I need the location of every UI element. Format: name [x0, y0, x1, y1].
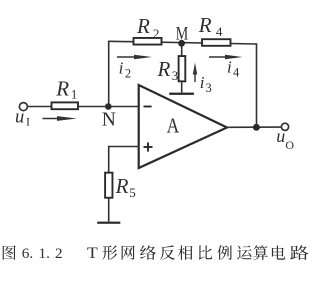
wire input to R1	[28, 106, 52, 108]
wire R3 to ground	[181, 82, 183, 92]
top rail wire	[109, 41, 257, 44]
plus input wire	[109, 146, 140, 148]
node N	[105, 103, 112, 110]
svg-text:A: A	[167, 113, 180, 137]
svg-text:3: 3	[206, 81, 212, 95]
svg-text:M: M	[176, 25, 189, 45]
input current arrow	[43, 116, 78, 121]
svg-text:R: R	[157, 57, 171, 81]
output terminal circle	[281, 123, 288, 130]
svg-text:4: 4	[216, 24, 223, 39]
resistor R5	[105, 173, 112, 198]
svg-text:O: O	[285, 138, 294, 152]
label R2	[136, 14, 159, 41]
caption chinese text paths	[3, 245, 309, 260]
svg-text:I: I	[26, 114, 30, 128]
op-amp plus sign	[144, 142, 153, 151]
label R5	[115, 174, 136, 200]
current arrow i3	[193, 63, 197, 83]
ground under R3	[169, 93, 194, 95]
input terminal circle	[19, 103, 27, 111]
svg-text:1: 1	[71, 87, 78, 102]
label R4	[198, 13, 223, 39]
svg-text:1.: 1.	[39, 245, 50, 262]
svg-text:u: u	[15, 108, 24, 128]
label u_I	[15, 108, 30, 129]
svg-text:i: i	[119, 59, 124, 78]
svg-text:R: R	[115, 174, 129, 198]
svg-text:u: u	[276, 126, 285, 146]
resistor R3	[179, 56, 186, 81]
wire down to R5	[108, 146, 110, 173]
svg-text:2: 2	[125, 66, 131, 80]
right vertical wire down to output node	[256, 43, 258, 127]
label u_O	[276, 126, 294, 152]
svg-text:N: N	[102, 110, 116, 131]
node M	[178, 40, 185, 47]
label R1	[55, 76, 77, 101]
svg-text:i: i	[227, 58, 232, 77]
resistor R1	[52, 102, 79, 109]
label i3	[200, 73, 212, 95]
svg-text:R: R	[136, 14, 150, 38]
svg-text:2: 2	[55, 245, 63, 262]
output wire from apex	[227, 126, 281, 128]
label R3	[157, 57, 179, 83]
wire R5 to ground	[108, 198, 110, 222]
svg-text:R: R	[198, 13, 212, 37]
ground under R5	[97, 222, 120, 224]
output node	[253, 124, 260, 131]
resistor R2	[134, 38, 162, 45]
svg-text:5: 5	[129, 185, 136, 200]
svg-text:T: T	[87, 245, 98, 262]
svg-text:3: 3	[172, 68, 179, 83]
wire M down to R3	[181, 43, 183, 56]
current arrow i4	[209, 55, 243, 60]
svg-text:2: 2	[153, 26, 160, 41]
op-amp minus sign	[144, 106, 152, 108]
svg-text:i: i	[200, 73, 205, 92]
resistor R4	[202, 39, 231, 46]
svg-text:4: 4	[233, 66, 240, 80]
caption figure number	[22, 245, 99, 262]
wire R1 to op-amp minus input	[78, 106, 140, 108]
svg-text:6.: 6.	[22, 245, 33, 262]
wire N up to top rail	[108, 41, 110, 107]
label i4	[227, 58, 240, 80]
svg-text:R: R	[55, 76, 69, 100]
label i2	[119, 59, 132, 81]
op-amp A triangle	[139, 85, 227, 168]
current arrow i2	[117, 55, 152, 60]
